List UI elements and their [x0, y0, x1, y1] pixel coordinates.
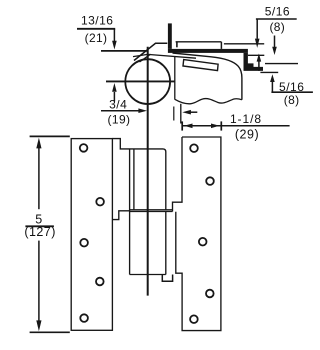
dim 5/16 right: fraction line [271, 91, 313, 93]
dim 1-1/8 line [182, 125, 289, 127]
arrow up right 5/16 [271, 82, 273, 92]
dim 3/4 arrow line [101, 110, 140, 112]
svg-text:(8): (8) [270, 20, 286, 34]
door break wavy line [175, 99, 242, 104]
pivot centerline horizontal [106, 80, 175, 82]
svg-text:3/4: 3/4 [109, 98, 127, 112]
channel jog vertical [220, 42, 222, 49]
door top edge [133, 54, 196, 58]
channel top line right segment [224, 43, 264, 45]
dim 5 fraction line [25, 225, 54, 227]
svg-text:13/16: 13/16 [81, 14, 113, 28]
arrow up at bracket [258, 62, 260, 71]
right leaf hole 2 [206, 177, 214, 185]
svg-text:(21): (21) [85, 31, 108, 45]
left leaf hole 1 [80, 144, 88, 152]
left leaf hole 5 [80, 314, 88, 322]
arrow down inner [274, 36, 276, 48]
dim 1-1/8 left arrow [191, 111, 198, 113]
left leaf hole 4 [96, 278, 104, 286]
left leaf hole 3 [80, 239, 88, 247]
dim 1-1/8 ticks [181, 121, 183, 130]
left leaf hole 2 [96, 198, 104, 206]
jamb bracket black step [244, 53, 264, 71]
svg-text:5/16: 5/16 [279, 80, 304, 94]
housing left staircase [112, 211, 129, 220]
bracket ref line upper [265, 63, 298, 65]
frame head thick horizontal bar [168, 49, 248, 53]
svg-text:(8): (8) [284, 93, 300, 107]
svg-text:(19): (19) [108, 112, 131, 126]
dim 5 top extension line [30, 135, 70, 137]
left leaf plate [71, 139, 112, 331]
right leaf plate [176, 137, 221, 331]
housing bottom line [130, 274, 166, 276]
dim 5 vertical line lower [38, 241, 40, 323]
frame face line (top view) [101, 50, 148, 52]
housing inner line 1 [129, 149, 131, 275]
frame stop thick vertical bar [168, 23, 172, 49]
dim 1-1/8 left extension line [180, 104, 182, 124]
right leaf hole 1 [190, 144, 198, 152]
right leaf hole 4 [206, 290, 214, 298]
housing notch [162, 275, 172, 282]
door face line [174, 56, 176, 100]
pivot arm in door [183, 60, 218, 71]
arm top diagonal [134, 43, 167, 60]
pivot centerline vertical [147, 47, 149, 296]
dim 1-1/8 arrows [192, 125, 213, 127]
pivot circle [125, 59, 170, 104]
bracket ref line lower [260, 71, 278, 73]
thin line under bar [248, 54, 264, 56]
housing top step [112, 139, 165, 210]
dim 5 bottom extension line [30, 331, 70, 333]
door outline upper edge [173, 53, 242, 100]
housing mid double line [130, 209, 173, 211]
dim 5/16 top: fraction line [256, 18, 297, 20]
dim 13/16 leader line [77, 28, 115, 30]
door face extension line [173, 107, 175, 121]
arrow down from 5/16 top [256, 19, 258, 39]
channel top thin line [176, 41, 222, 43]
svg-text:5/16: 5/16 [265, 5, 290, 19]
channel lip [176, 42, 178, 48]
dim 13/16 down arrow [113, 29, 115, 41]
housing right line lower [165, 212, 167, 275]
right leaf hole 5 [190, 315, 198, 323]
short diagonal [140, 54, 151, 62]
dim 5 vertical line upper [38, 147, 40, 210]
svg-text:(127): (127) [24, 225, 55, 239]
svg-text:1-1/8: 1-1/8 [230, 112, 262, 126]
dim 13/16 up arrow [113, 92, 115, 102]
svg-text:(29): (29) [235, 128, 259, 142]
housing inner line 2 [133, 149, 135, 210]
right leaf hole 3 [199, 238, 207, 246]
